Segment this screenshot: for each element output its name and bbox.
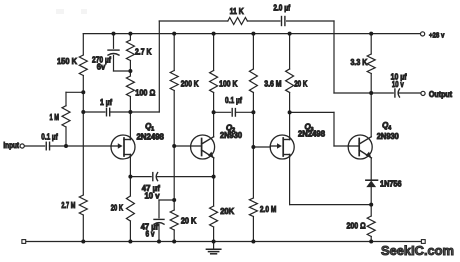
svg-text:1 µf: 1 µf: [100, 97, 112, 107]
svg-text:SeekIC.com: SeekIC.com: [381, 244, 454, 258]
svg-text:2N930: 2N930: [220, 130, 242, 140]
svg-text:200 K: 200 K: [181, 78, 199, 88]
svg-text:2N930: 2N930: [377, 131, 399, 141]
svg-text:150 K: 150 K: [57, 56, 77, 66]
svg-text:2.0 µf: 2.0 µf: [273, 2, 290, 12]
svg-text:20 K: 20 K: [294, 78, 307, 88]
svg-text:2N2498: 2N2498: [298, 129, 325, 139]
svg-text:6v: 6v: [97, 62, 106, 72]
svg-text:11 K: 11 K: [230, 6, 244, 16]
svg-text:Input: Input: [3, 141, 19, 150]
svg-text:2.7 K: 2.7 K: [135, 46, 152, 56]
svg-text:200 Ω: 200 Ω: [347, 220, 366, 230]
svg-text:10 v: 10 v: [145, 191, 160, 201]
svg-text:10 v: 10 v: [392, 79, 404, 89]
svg-text:3.6 M: 3.6 M: [264, 78, 281, 88]
svg-text:100 K: 100 K: [219, 78, 237, 88]
svg-text:20 K: 20 K: [181, 215, 197, 225]
svg-text:2.7 M: 2.7 M: [61, 200, 75, 210]
svg-text:0.1 µf: 0.1 µf: [41, 131, 58, 141]
svg-text:1N756: 1N756: [380, 179, 402, 189]
svg-text:0.1 µf: 0.1 µf: [225, 95, 242, 105]
svg-text:20 K: 20 K: [111, 203, 123, 213]
svg-text:2N2498: 2N2498: [136, 132, 164, 142]
svg-text:1 M: 1 M: [49, 112, 59, 122]
svg-text:6 v: 6 v: [146, 228, 155, 238]
svg-text:+28 v: +28 v: [429, 30, 445, 39]
svg-text:20K: 20K: [220, 206, 234, 216]
svg-text:2.0 M: 2.0 M: [260, 204, 276, 214]
svg-text:3.3 K: 3.3 K: [351, 57, 368, 67]
svg-text:100 Ω: 100 Ω: [135, 87, 155, 97]
svg-text:Output: Output: [429, 90, 453, 99]
